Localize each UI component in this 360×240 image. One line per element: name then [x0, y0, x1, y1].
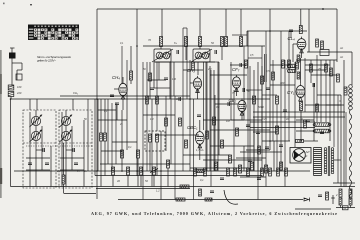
wire T5 col x293 — [292, 44, 294, 62]
resistor R64 — [325, 64, 328, 72]
wire mesh v2 — [115, 103, 117, 164]
junction J12 — [300, 140, 302, 142]
wire mesh h1 — [155, 61, 215, 63]
svg-text:AP: AP — [305, 150, 310, 154]
diode arrow D1 — [331, 195, 335, 204]
resistor R68 — [316, 39, 319, 47]
resistor R4 — [100, 133, 103, 141]
svg-text:100: 100 — [172, 78, 177, 81]
wire vertical x200 — [199, 9, 201, 37]
resistor R27 — [179, 118, 182, 126]
wire mesh v12 — [193, 99, 195, 200]
tube CY1 — [287, 84, 305, 102]
wire mesh v10 — [182, 28, 184, 171]
wire x63 avc low — [63, 184, 65, 194]
resistor R26 — [229, 155, 232, 163]
wire x161 to box — [160, 47, 162, 50]
wire mesh h7 — [215, 103, 238, 105]
svg-text:AEG, 97 GWK, und Telefunken, 7: AEG, 97 GWK, und Telefunken, 7000 GWK, A… — [91, 211, 337, 216]
capacitor C10 — [243, 88, 245, 92]
tube CB2 — [229, 98, 247, 115]
svg-text:1,7mA: 1,7mA — [196, 148, 204, 152]
wire af v x244 — [243, 146, 245, 171]
wire fz h80 — [147, 79, 166, 81]
svg-text:0,1: 0,1 — [216, 105, 220, 109]
wire x127 branch — [126, 95, 128, 150]
capacitor C19 — [110, 95, 114, 97]
wire mesh v33 — [310, 60, 312, 83]
capacitor C27 — [265, 147, 269, 149]
wire mesh v35 — [325, 60, 327, 122]
wire mesh v39 — [121, 46, 123, 84]
svg-text:CF₇: CF₇ — [232, 67, 240, 72]
resistor R36 — [215, 162, 218, 170]
capacitor C6 — [289, 30, 293, 32]
pilot lamp chain bulb 6 — [349, 106, 353, 110]
wire vertical x337 right drop — [336, 9, 338, 62]
wire box1 inner v2 — [41, 126, 43, 170]
wire tr2 tap — [334, 159, 341, 161]
resistor R65 — [304, 120, 307, 128]
wire vertical mid x210 — [209, 66, 211, 171]
wire shielded pair a — [264, 54, 266, 82]
wire mesh v9 — [174, 96, 176, 200]
wire bus y209 right — [295, 208, 331, 210]
wire mesh h25 — [311, 74, 337, 76]
wire mesh h3 — [183, 69, 203, 71]
resistor R18 — [236, 128, 239, 136]
wire y141 to transformer — [304, 140, 319, 142]
resistor R23 — [276, 126, 279, 134]
wire mesh h24 — [305, 64, 330, 66]
resistor R72 — [199, 189, 202, 196]
junction J2 — [136, 45, 138, 47]
junction J10 — [136, 170, 138, 172]
resistor screen R8 — [137, 150, 140, 158]
wire trim2 — [66, 149, 73, 151]
IF coil L6 — [156, 52, 164, 59]
wire harness x98 low — [97, 99, 99, 171]
resistor R59 — [156, 96, 159, 104]
wire mesh h32 — [203, 61, 219, 63]
capacitor C9 — [256, 132, 260, 134]
left edge smudge 2 — [0, 74, 2, 94]
pilot lamp chain bulb 3 — [349, 93, 353, 97]
pilot lamp chain bulb 1 — [349, 85, 353, 89]
trimmer C2b — [74, 163, 78, 165]
tuning coil L2 — [29, 115, 42, 128]
wire coil gnd x36 — [35, 141, 37, 187]
shield box front end 1 — [23, 110, 56, 188]
resistor lamp shunt R42 — [344, 87, 347, 95]
resistor R56 — [285, 168, 288, 176]
shield divider 1 — [23, 142, 56, 144]
wire T6 up — [300, 58, 302, 83]
junction J14 — [121, 170, 123, 172]
wire grid cap T1 — [122, 77, 124, 81]
wire R32 dn — [140, 175, 142, 187]
wire mesh h30 — [296, 119, 314, 121]
capacitor C12 — [257, 178, 261, 180]
resistor R21 — [261, 76, 264, 84]
wire mesh v28 — [257, 132, 259, 200]
svg-text:300: 300 — [176, 98, 181, 101]
resistor cathode R7 — [121, 150, 124, 158]
wire hline y141 — [262, 140, 290, 142]
resistor mains R44 — [349, 189, 352, 197]
wire shielded pair b — [265, 54, 267, 82]
resistor R34 — [180, 185, 189, 188]
svg-text:An: An — [339, 46, 344, 50]
wire x309 dn — [308, 25, 310, 52]
oscillator coil pill 2 — [288, 69, 297, 72]
terminal arrow y199 — [304, 198, 310, 202]
junction J6 — [240, 45, 242, 47]
wire mesh v8 — [170, 62, 172, 164]
wire grid T1 left — [114, 88, 119, 90]
resistor R52 — [247, 168, 250, 176]
switch blade S1 — [150, 169, 158, 173]
wire mesh h35 — [190, 167, 248, 169]
trimmer C1b — [28, 163, 32, 165]
svg-text:5+: 5+ — [77, 169, 80, 173]
wire harness x101 low — [100, 141, 102, 187]
wire mesh h34 — [240, 176, 266, 178]
wire L10 dn — [149, 142, 151, 171]
wire vertical x241 — [240, 9, 242, 37]
wire fz v174 — [173, 62, 175, 96]
wire mesh v11 — [186, 28, 188, 99]
wire box2 top entry — [72, 99, 74, 110]
wire mesh v38 — [345, 112, 347, 187]
wire mesh h31 — [253, 131, 277, 133]
wire r4346 join — [340, 205, 342, 208]
wire left col x95 — [94, 99, 96, 176]
tube CF7 — [232, 67, 241, 92]
wire x122 dn — [121, 110, 123, 171]
resistor R53 — [261, 168, 264, 176]
junction top bus at x323 — [322, 8, 324, 10]
top-left speck — [30, 4, 32, 5]
tuning coil L4 — [59, 115, 72, 128]
svg-text:gelten für 220V~: gelten für 220V~ — [37, 59, 56, 63]
wire mesh h26 — [317, 94, 341, 96]
resistor AVC R3 — [62, 175, 65, 184]
resistor mains R46 — [349, 198, 352, 205]
junction J15 — [10, 98, 12, 100]
wire mesh v7 — [165, 96, 167, 151]
wire mesh v42 — [87, 99, 89, 120]
IF arrow 1 — [152, 49, 173, 62]
trimmer C1 — [43, 148, 45, 152]
svg-text:=: = — [339, 99, 341, 103]
wire mesh h28 — [232, 34, 247, 36]
wire af h y152 — [240, 151, 282, 153]
wire mesh h11 — [210, 145, 254, 147]
wire mesh v27 — [253, 117, 255, 171]
resistor R74 — [337, 74, 340, 82]
wire mesh h22 — [262, 94, 277, 96]
scale cord wavy line — [349, 110, 351, 199]
speaker box — [290, 148, 311, 164]
IF arrow 2 — [191, 49, 212, 62]
wire box2 inner v1 — [61, 112, 63, 187]
wire mesh v4 — [146, 62, 148, 171]
wire coil link x66 — [65, 126, 67, 131]
tube voltage table — [28, 25, 79, 41]
capacitor C8 — [283, 110, 287, 112]
wire mesh h17 — [98, 119, 127, 121]
trimmer C2 — [73, 148, 75, 152]
junction J1 — [96, 98, 98, 100]
capacitor C15 — [197, 115, 201, 117]
mains transformer TR2 — [324, 146, 334, 176]
wire T2 grid — [190, 82, 193, 84]
resistor R37 — [239, 165, 242, 173]
tube CBC1 — [187, 125, 204, 148]
wire T5 left — [293, 43, 297, 45]
wire psu h y105 — [305, 104, 341, 106]
resistor R13 — [225, 37, 228, 47]
wire top B+ bus — [97, 8, 337, 10]
wire IF1 dn — [158, 62, 160, 80]
wire fz v150 — [149, 62, 151, 99]
resistor R66 — [316, 104, 319, 112]
wire mesh v19 — [233, 90, 235, 171]
wire hline y127 — [250, 127, 315, 129]
left edge dark smudge — [0, 168, 2, 184]
svg-text:CBC₁: CBC₁ — [187, 125, 198, 130]
resistor anode R6 — [130, 71, 133, 80]
tube CH3 — [187, 68, 202, 93]
rectifier box Gl — [343, 206, 349, 210]
capacitor C28 — [164, 78, 168, 80]
tuning coil L3 — [29, 130, 42, 143]
resistor R20 — [253, 96, 256, 104]
wire r4446 join — [350, 205, 352, 208]
wire mesh v31 — [294, 62, 296, 147]
wire harness x105 low — [104, 141, 106, 176]
wire psu v x334 — [333, 60, 335, 112]
capacitor C24 — [306, 120, 310, 122]
wire fz v170 — [169, 62, 171, 99]
wire ant step left — [17, 69, 22, 71]
wire x63 avc — [63, 143, 65, 175]
speaker jack box — [320, 50, 329, 56]
resistor R60 — [165, 118, 168, 126]
resistor R11 — [199, 37, 202, 47]
wire hline y112 — [253, 111, 345, 113]
wire mesh v23 — [272, 60, 274, 141]
wire T1 base dn — [122, 96, 124, 110]
wire mesh v5 — [151, 99, 153, 187]
resistor R54 — [269, 168, 272, 176]
svg-text:CH₁: CH₁ — [73, 91, 78, 95]
wire box2 inner v2 — [71, 126, 73, 170]
resistor R71 on y199 line — [205, 198, 212, 201]
wire coil gnd x66 — [65, 141, 67, 187]
resistor R58 — [192, 62, 195, 70]
wire c3 drop — [116, 105, 118, 120]
wire vertical mid x262 — [261, 66, 263, 171]
resistor R16 — [296, 140, 304, 143]
wire mesh h33 — [231, 119, 244, 121]
wire mesh h16 — [98, 109, 116, 111]
resistor R32 — [140, 167, 143, 175]
wire mesh v13 — [203, 62, 205, 130]
wire mesh h12 — [246, 149, 270, 151]
wire x190 dn — [189, 60, 191, 171]
wire x341 dn — [340, 95, 342, 187]
svg-text:1M: 1M — [150, 118, 153, 121]
wire x352 dn — [351, 52, 353, 85]
junction J8 — [189, 98, 191, 100]
wire vertical x270 top — [269, 9, 271, 31]
wire mesh v26 — [288, 31, 290, 141]
wire mesh v21 — [247, 31, 249, 171]
capacitor C26 — [248, 160, 252, 162]
resistor R29 — [167, 160, 170, 168]
tube CL4 — [288, 36, 306, 53]
pilot lamp chain bulb 4 — [349, 98, 353, 102]
junction J4 — [199, 45, 201, 47]
wire mesh h14 — [203, 159, 262, 161]
wire vertical mid x214 — [213, 70, 215, 171]
wire x247 dn — [246, 31, 248, 46]
wire x131 up — [130, 46, 132, 71]
pilot lamp chain bulb 2 — [349, 89, 353, 93]
wire T4 base — [241, 112, 243, 120]
coupling box — [16, 74, 22, 80]
IF coil L7 — [163, 52, 171, 59]
junction J13 — [160, 170, 162, 172]
resistor input divider R1 — [8, 85, 14, 90]
svg-text:0,25: 0,25 — [262, 118, 267, 121]
wire R33 dn — [153, 175, 155, 187]
wire bus y99 mid — [97, 98, 193, 100]
wire x330 dn — [329, 60, 331, 141]
wire x161 mid — [160, 131, 162, 200]
svg-text:An: An — [339, 55, 344, 59]
filament choke Ch2 — [313, 129, 331, 133]
wire R31 dn — [127, 175, 129, 187]
capacitor C14 — [318, 195, 322, 197]
wire hline y117 — [253, 116, 345, 118]
wire fz h88 — [154, 87, 170, 89]
svg-text:220: 220 — [16, 91, 22, 95]
svg-text:1,2: 1,2 — [156, 189, 160, 193]
wire mesh h9 — [210, 129, 270, 131]
wire vertical x309 — [308, 9, 310, 25]
wire y52 right — [307, 51, 352, 53]
wire mesh h2 — [230, 64, 247, 66]
wire T7 top — [199, 120, 201, 130]
wire y183 link — [333, 182, 355, 184]
resistor R5 — [104, 133, 107, 141]
oscillator coil pill 1 — [288, 64, 297, 67]
wire T7 base — [199, 145, 201, 161]
resistor R78 — [297, 72, 300, 79]
wire box1 inner h2 — [26, 169, 50, 171]
wire vertical from top bus x97 — [96, 9, 98, 199]
wire harness x105 — [104, 99, 106, 133]
junction J11 — [269, 140, 271, 142]
corner speck — [3, 3, 5, 5]
wire x200 to box — [199, 47, 201, 50]
resistor R10 — [185, 37, 188, 47]
wire R30 dn — [112, 175, 114, 187]
resistor mains R43 — [339, 189, 342, 197]
wire L11 dn — [156, 142, 158, 176]
resistor R63 — [310, 64, 313, 72]
wire x131 dn — [130, 80, 132, 84]
wire mesh v32 — [304, 58, 306, 112]
wire trim1 — [36, 149, 43, 151]
resistor R38 — [251, 162, 254, 170]
wire x314 dn — [313, 83, 315, 141]
wire bus y199 — [118, 199, 303, 201]
wire antenna down — [11, 59, 13, 87]
resistor R19 — [245, 60, 248, 68]
antenna coil L1 — [9, 53, 16, 59]
wire mesh v24 — [280, 31, 282, 171]
resistor R17 — [213, 117, 216, 125]
coil L11 — [156, 134, 159, 142]
wire mesh h15 — [143, 114, 175, 116]
resistor R14 — [240, 37, 243, 47]
junction J5 — [225, 45, 227, 47]
resistor R15 — [299, 26, 302, 34]
resistor R61 — [146, 96, 149, 104]
resistor R73 — [330, 68, 333, 76]
wire bus y171 — [14, 170, 310, 172]
wire box1 inner v1 — [29, 112, 31, 187]
resistor R62 — [272, 72, 275, 80]
wire r29 dn — [167, 168, 169, 187]
wire psu h y131 — [296, 130, 314, 132]
wire mesh v29 — [261, 46, 263, 132]
wire vertical mid x250 — [249, 66, 251, 171]
wire mesh v18 — [230, 62, 232, 120]
wire mesh h10 — [155, 134, 199, 136]
resistor R39 — [265, 165, 268, 173]
wire mesh h6 — [193, 98, 270, 100]
resistor R49 — [204, 168, 207, 176]
wire x344 dn — [343, 60, 345, 187]
capacitor C18 — [150, 88, 154, 90]
svg-text:5000: 5000 — [258, 105, 264, 109]
IF transformer box 1 — [154, 49, 171, 62]
wire mesh v6 — [156, 62, 158, 131]
wire IF2 dn — [197, 62, 199, 75]
capacitor C4 — [177, 50, 179, 54]
svg-text:100: 100 — [17, 85, 22, 89]
wire box2 inner h2 — [60, 169, 84, 171]
capacitor C25 — [320, 132, 324, 134]
svg-text:0,5: 0,5 — [266, 69, 270, 73]
wire mesh h27 — [326, 104, 344, 106]
wire mesh h20 — [270, 64, 290, 66]
wire mesh v16 — [214, 95, 216, 171]
resistor R25 — [221, 140, 224, 148]
tuning coil L5 — [59, 130, 72, 143]
resistor R69 — [321, 41, 324, 49]
svg-text:2M: 2M — [207, 68, 211, 71]
left scan edge shading — [0, 50, 2, 198]
wire x222 dn — [221, 47, 223, 61]
capacitor C22 — [179, 97, 181, 101]
wire bus y175 — [95, 175, 262, 177]
